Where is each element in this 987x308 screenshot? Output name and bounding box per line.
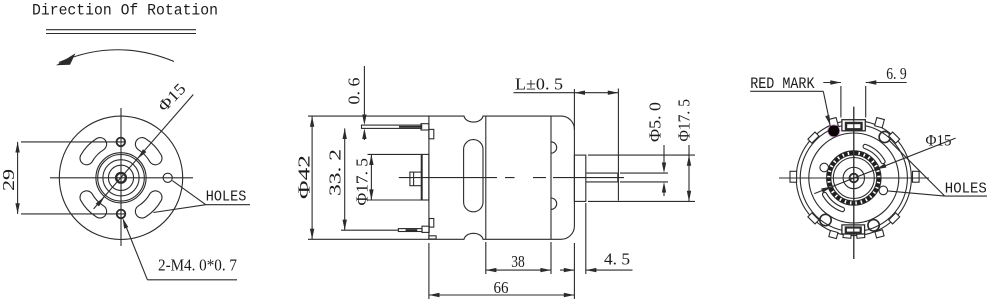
middle top pin holder xyxy=(421,124,429,130)
middle bottom pin holder xyxy=(422,226,429,232)
dimension phi15 right line xyxy=(814,138,955,194)
middle body outline xyxy=(429,116,575,239)
svg-text:6. 9: 6. 9 xyxy=(886,64,907,83)
right view vertical centerline over tabs xyxy=(853,107,855,259)
svg-text:Φ15: Φ15 xyxy=(155,80,189,115)
dimension phi17.5 right arrows xyxy=(687,155,691,201)
label HOLES right text xyxy=(945,180,987,197)
left view vertical centerline xyxy=(120,108,122,246)
dimension phi17.5 front ext lines xyxy=(368,154,422,200)
middle top pin dark segment xyxy=(399,126,422,128)
right view vertical centerline xyxy=(853,107,855,259)
right view rim hole lower-right xyxy=(868,220,879,231)
svg-text:HOLES: HOLES xyxy=(945,180,987,197)
dimension 4.5 line xyxy=(560,269,633,271)
dimension phi15 left arrows xyxy=(96,149,147,206)
left view ring r23.3 xyxy=(98,155,145,202)
dimension 66 line xyxy=(429,294,575,296)
label RED MARK arrowhead xyxy=(825,115,830,126)
right view horizontal centerline xyxy=(779,177,929,179)
svg-text:2-M4. 0*0. 7: 2-M4. 0*0. 7 xyxy=(158,256,237,275)
dimension 6.9 arrows xyxy=(830,80,876,84)
right view inner rim circle xyxy=(800,124,907,231)
right view bottom tab foot left xyxy=(843,233,851,238)
right view horizontal centerline over notches xyxy=(779,177,929,179)
dimension 33.2 arrows xyxy=(343,128,347,230)
title underline double xyxy=(46,30,196,34)
middle top pin xyxy=(362,125,422,128)
dimension phi15 left text xyxy=(155,80,189,115)
dimension 4.5 ext line xyxy=(585,203,587,274)
dimension 0.6 text xyxy=(345,78,364,105)
label HOLES right leaders xyxy=(888,141,945,196)
right view slot lower-left xyxy=(823,192,845,211)
middle bottom pin dark segment xyxy=(406,229,418,231)
dimension 33.2 text xyxy=(326,149,345,196)
left view top mounting hole xyxy=(117,138,126,147)
middle bottom face foot xyxy=(429,236,436,239)
right view bottom tab foot right xyxy=(857,233,865,238)
svg-text:33. 2: 33. 2 xyxy=(326,149,345,196)
middle can crimp bump bottom xyxy=(551,198,557,209)
middle can crimp bump top xyxy=(551,142,557,153)
label HOLES left underline xyxy=(206,204,250,206)
left view slot top-left xyxy=(80,138,107,165)
label 2-M4.0*0.7 underline xyxy=(147,279,237,281)
right view notch left 9oclock xyxy=(790,171,797,182)
dimension 29 text xyxy=(0,169,18,191)
dimension 29 line xyxy=(17,142,19,214)
right view notch right 3oclock xyxy=(913,171,920,182)
dimension 29 arrows xyxy=(15,142,19,214)
dimension 66 ext lines xyxy=(429,243,575,299)
dimension phi42 text xyxy=(295,155,314,199)
svg-text:Direction Of Rotation: Direction Of Rotation xyxy=(32,2,218,20)
right view interior circle xyxy=(809,133,899,223)
right view bottom tab inner white gap xyxy=(852,229,855,231)
right view top tab inner white gap xyxy=(852,125,855,128)
right view small square left of bottom tab xyxy=(829,230,838,238)
middle bottom face tab xyxy=(429,219,434,228)
dimension phi17.5 front line xyxy=(370,154,372,200)
right view outer circle xyxy=(796,120,911,235)
svg-text:Φ15: Φ15 xyxy=(926,133,952,150)
right view notch top-left diag xyxy=(808,132,819,143)
left view slot bottom-right xyxy=(135,191,162,218)
left view slot top-right xyxy=(135,138,162,165)
dimension 66 text xyxy=(494,278,509,297)
label 2-M4.0*0.7 leader xyxy=(124,222,147,280)
dimension phi17.5 right line xyxy=(688,145,690,201)
svg-text:RED MARK: RED MARK xyxy=(750,75,815,93)
label RED MARK underline xyxy=(750,90,823,92)
dimension 0.6 arrows xyxy=(362,115,366,140)
dimension 33.2 ext line bottom xyxy=(341,229,398,231)
rotation arrow arc xyxy=(59,50,174,63)
dimension phi5.0 ext lines xyxy=(620,173,668,182)
dimension 38 text xyxy=(511,252,525,271)
left view slot bottom-left xyxy=(80,191,107,218)
label HOLES left text xyxy=(206,188,247,205)
svg-text:Φ17. 5: Φ17. 5 xyxy=(675,99,694,142)
right view notch bottom-right diag xyxy=(889,213,900,224)
dimension phi15 right text xyxy=(926,133,952,150)
red mark dot xyxy=(828,125,839,136)
dimension phi15 left line xyxy=(94,95,194,209)
dimension phi17.5 right ext lines xyxy=(588,155,695,201)
right view top terminal tab outer xyxy=(842,120,865,131)
dimension L+-0.5 ext lines xyxy=(574,89,618,201)
right view notch bottom-left diag xyxy=(808,213,819,224)
label HOLES right underline xyxy=(945,195,987,197)
dimension 38 ext lines xyxy=(486,242,551,274)
right view slot upper-right xyxy=(863,144,885,163)
right view bottom terminal tab inner xyxy=(846,228,861,233)
dimension 6.9 line xyxy=(823,82,906,84)
label 2-M4.0*0.7 text xyxy=(158,256,237,275)
svg-text:29: 29 xyxy=(0,169,18,191)
dimension 33.2 line xyxy=(344,128,346,230)
right view center hole xyxy=(850,174,859,183)
dimension 4.5 text xyxy=(604,250,630,269)
right view ring r10.7 xyxy=(843,167,864,188)
right view rim hole lower-left xyxy=(820,214,831,225)
middle top face tab xyxy=(429,129,434,138)
middle vent oval xyxy=(464,140,483,212)
dimension 29 extension lines xyxy=(21,142,126,214)
dimension phi15 right arrows xyxy=(821,164,886,193)
dimension phi42 ext lines xyxy=(308,116,429,239)
middle can left line xyxy=(485,116,487,239)
dimension 38 line xyxy=(486,269,551,271)
middle can right line xyxy=(550,116,552,239)
right view thick dark ring xyxy=(831,155,877,201)
right view bottom terminal tab outer xyxy=(842,225,865,234)
rotation arrowhead xyxy=(56,53,76,65)
label RED MARK leader xyxy=(823,91,829,121)
dimension phi42 arrows xyxy=(310,116,314,239)
right view top terminal tab inner xyxy=(846,123,862,129)
dimension phi5.0 text xyxy=(646,102,665,142)
svg-text:L±0. 5: L±0. 5 xyxy=(515,75,563,94)
svg-text:Φ42: Φ42 xyxy=(295,155,314,199)
right view ring r20.5 xyxy=(833,158,874,199)
svg-text:HOLES: HOLES xyxy=(206,188,247,205)
svg-text:0. 6: 0. 6 xyxy=(345,78,364,105)
right view mid hole right xyxy=(879,186,888,195)
right view rim hole upper-right xyxy=(879,131,890,142)
right view small square right of bottom tab xyxy=(875,230,884,238)
dimension L+-0.5 arrows xyxy=(574,91,618,95)
svg-text:Φ5. 0: Φ5. 0 xyxy=(646,102,665,142)
middle axis centerline xyxy=(399,177,624,179)
right view notch top-right diag xyxy=(889,132,900,143)
dimension 66 arrows xyxy=(429,293,575,297)
left view ring r25 xyxy=(96,153,146,203)
dimension L+-0.5 line xyxy=(514,92,619,94)
middle rear shaft xyxy=(586,173,618,182)
dimension phi5.0 arrows xyxy=(662,163,666,193)
dimension L+-0.5 text xyxy=(515,75,563,94)
right view small square left of top tab xyxy=(829,118,839,128)
right view small square right of top tab xyxy=(875,118,885,128)
dimension 0.6 line xyxy=(363,66,365,140)
dimension 6.9 text xyxy=(886,64,907,83)
left view horizontal centerline xyxy=(50,177,193,179)
dimension phi17.5 right text xyxy=(675,99,694,142)
left view outer circle xyxy=(59,116,182,239)
left view right small hole xyxy=(163,173,172,182)
left view ring r18.1 xyxy=(103,160,139,196)
left view hub thick ring xyxy=(116,173,126,183)
title Direction Of Rotation xyxy=(32,2,218,20)
dimension phi17.5 front arrows xyxy=(369,154,373,200)
middle front boss face thick line xyxy=(421,154,423,200)
dimension phi42 line xyxy=(311,116,313,239)
svg-text:Φ17. 5: Φ17. 5 xyxy=(353,158,372,206)
label 2-M4.0*0.7 arrowhead xyxy=(123,218,129,229)
dimension 6.9 ext lines xyxy=(841,86,866,118)
middle front shaft stub chamfer xyxy=(413,172,415,186)
dimension phi5.0 line xyxy=(663,145,665,196)
dimension 38 arrows xyxy=(486,268,551,272)
label RED MARK text xyxy=(750,75,815,93)
right view mid hole left xyxy=(820,163,829,172)
dimension phi17.5 front text xyxy=(353,158,372,206)
middle front shaft stub xyxy=(410,172,422,186)
left view ring r12.6 xyxy=(108,165,133,190)
label HOLES left leaders xyxy=(153,181,205,213)
middle bottom pin xyxy=(398,229,422,232)
svg-text:66: 66 xyxy=(494,278,509,297)
svg-text:38: 38 xyxy=(511,252,525,271)
left view bottom mounting hole xyxy=(117,210,126,219)
middle front boss xyxy=(422,154,429,200)
middle rear bearing boss xyxy=(574,155,585,201)
svg-text:4. 5: 4. 5 xyxy=(604,250,630,269)
red mark dot halo xyxy=(827,124,840,137)
dimension 4.5 arrows xyxy=(564,268,597,272)
